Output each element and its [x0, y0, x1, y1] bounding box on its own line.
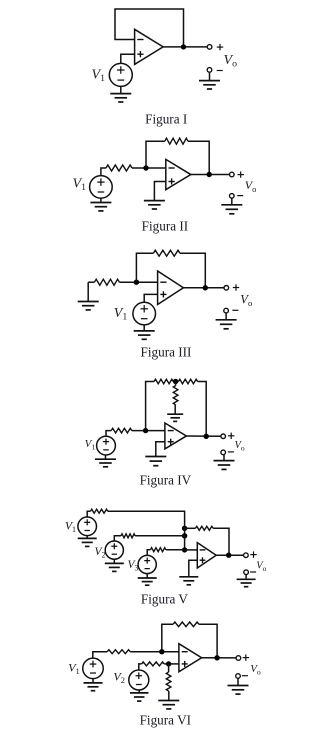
ground at output Fig.IV	[214, 455, 235, 470]
junction output node Fig.II	[207, 172, 212, 177]
svg-text:Vo: Vo	[250, 663, 261, 677]
wire bus B-C Fig.V	[184, 536, 186, 550]
terminal + Fig.II	[230, 172, 235, 177]
ground at output Fig.III	[216, 313, 237, 329]
svg-text:V1: V1	[68, 660, 80, 676]
svg-text:V2: V2	[113, 669, 125, 685]
svg-text:Vo: Vo	[224, 53, 238, 70]
wire T mid Fig.IV	[173, 381, 178, 383]
svg-text:V2: V2	[95, 546, 106, 560]
ground at output Fig.I	[199, 72, 220, 89]
wire bus A-B Fig.V	[184, 528, 186, 536]
wire R3 to bus Fig.V	[166, 549, 185, 551]
wire R1 to bus Fig.V	[108, 511, 185, 528]
svg-text:Figura II: Figura II	[142, 219, 189, 234]
wire noninverting input Fig.III	[144, 294, 157, 302]
ground under R4 Fig.IV	[167, 405, 183, 422]
op-amp U1 Fig.II	[166, 159, 191, 189]
svg-text:Vo: Vo	[235, 440, 245, 453]
wire node C to op-amp Fig.V	[185, 549, 198, 551]
wire T to R4 Fig.IV	[175, 382, 177, 386]
svg-text:V1: V1	[114, 306, 128, 323]
wire from V1 Fig.II	[101, 168, 106, 176]
wire output Fig.II	[191, 174, 230, 176]
wire output Fig.III	[183, 287, 224, 289]
terminal + Fig.I	[207, 45, 212, 50]
wire output Fig.VI	[202, 657, 237, 659]
junction inverting node Fig.VI	[159, 649, 164, 654]
junction bus node B Fig.V	[182, 533, 187, 538]
label - Fig.II	[237, 195, 243, 197]
wire R1 to node Fig.II	[132, 167, 166, 169]
ground under R4 Fig.VI	[158, 691, 179, 709]
ground under V1 Fig.IV	[95, 455, 116, 467]
ground at noninverting input Fig.IV	[145, 457, 166, 466]
wire output Fig.IV	[186, 435, 221, 437]
ground under V2 Fig.VI	[130, 690, 149, 701]
terminal - Fig.V	[244, 570, 249, 575]
label - Fig.VI	[242, 675, 248, 677]
ground at output Fig.VI	[228, 678, 249, 694]
junction output node Fig.III	[203, 285, 208, 290]
resistor R4 feedback Fig.V	[196, 526, 214, 530]
junction noninverting node Fig.VI	[166, 661, 171, 666]
resistor R4 shunt Fig.VI	[166, 672, 171, 691]
svg-text:V1: V1	[85, 438, 96, 452]
terminal + Fig.VI	[236, 656, 241, 661]
wire feedback down Fig.V	[213, 528, 229, 555]
wire noninverting to ground Fig.II	[154, 182, 165, 201]
ground at output Fig.V	[237, 575, 256, 587]
terminal + Fig.V	[244, 553, 249, 558]
source V1 Fig.V	[78, 517, 97, 536]
terminal - Fig.II	[230, 194, 235, 199]
wire R1 to node Fig.IV	[132, 430, 165, 432]
wire output Fig.I	[163, 46, 207, 48]
wire gnd to R1 Fig.III	[88, 281, 94, 283]
terminal - Fig.III	[224, 308, 229, 313]
label + Fig.III	[233, 284, 239, 290]
resistor R2 feedback Fig.III	[153, 250, 180, 256]
wire feedback up Fig.VI	[162, 624, 173, 651]
terminal - Fig.VI	[236, 674, 241, 679]
label - Fig.I	[217, 70, 223, 72]
svg-text:Figura V: Figura V	[141, 591, 188, 606]
svg-text:Figura III: Figura III	[141, 344, 192, 359]
wire feedback up Fig.II	[146, 141, 165, 168]
wire from V1 Fig.VI	[93, 652, 107, 659]
terminal - Fig.I	[207, 68, 212, 73]
junction inverting node Fig.II	[143, 165, 148, 170]
junction output node Fig.IV	[204, 434, 209, 439]
junction inverting node Fig.IV	[143, 428, 148, 433]
ground under V1 Fig.II	[90, 198, 111, 211]
svg-text:Vo: Vo	[240, 292, 253, 308]
resistor R2 feedback Fig.VI	[173, 622, 199, 627]
source V1 Fig.III	[133, 302, 156, 325]
svg-text:Figura I: Figura I	[145, 112, 187, 127]
resistor R1 Fig.IV	[111, 428, 132, 433]
junction output node Fig.V	[226, 553, 231, 558]
terminal - Fig.IV	[221, 450, 226, 455]
op-amp U1 Fig.VI	[179, 644, 202, 672]
wire from V2 Fig.V	[114, 536, 121, 541]
source V1 Fig.II	[90, 176, 113, 199]
source V2 Fig.V	[105, 541, 123, 559]
ground at output Fig.II	[221, 198, 242, 214]
wire R1 to node Fig.VI	[130, 651, 179, 653]
wire from V1 Fig.V	[87, 511, 90, 517]
wire feedback up Fig.III	[136, 253, 153, 282]
source V1 Fig.VI	[83, 658, 104, 679]
wire feedback down Fig.III	[180, 253, 205, 288]
label - Fig.IV	[228, 451, 234, 453]
wire from V2 Fig.VI	[139, 664, 142, 670]
svg-text:Vo: Vo	[245, 178, 257, 194]
wire R2 to bus Fig.V	[135, 535, 185, 537]
source V3 Fig.V	[138, 555, 156, 573]
svg-text:V1: V1	[65, 520, 76, 534]
wire from V1 Fig.IV	[106, 431, 111, 437]
resistor R4 shunt Fig.IV	[173, 386, 178, 405]
ground under V1 Fig.III	[134, 325, 155, 339]
ground at noninverting input Fig.II	[144, 201, 165, 209]
wire plus node to R4 Fig.VI	[168, 664, 170, 672]
wire feedback down Fig.II	[188, 141, 209, 174]
junction bus node A Fig.V	[182, 526, 187, 531]
resistor R2 feedback Fig.II	[165, 138, 188, 144]
label - Fig.III	[232, 309, 238, 311]
junction inverting node Fig.III	[134, 280, 139, 285]
resistor R2 feedback-left Fig.IV	[154, 379, 173, 384]
wire noninverting input Fig.I	[121, 54, 135, 63]
wire feedback loop Fig.I	[115, 9, 184, 47]
svg-text:V1: V1	[92, 67, 106, 84]
label + Fig.I	[217, 44, 223, 50]
svg-text:V1: V1	[73, 176, 87, 193]
ground at R1 input Fig.III	[78, 282, 99, 310]
resistor R1 Fig.II	[106, 165, 132, 171]
resistor R1 Fig.V	[91, 509, 108, 513]
junction T node Fig.IV	[173, 379, 178, 384]
wire feedback down Fig.IV	[198, 382, 207, 437]
terminal + Fig.IV	[221, 434, 226, 439]
wire feedback up Fig.IV	[146, 382, 155, 431]
resistor R3 Fig.V	[151, 548, 166, 552]
label + Fig.V	[250, 551, 256, 557]
junction bus node C Fig.V	[182, 547, 187, 552]
label - Fig.V	[250, 571, 256, 573]
source V2 Fig.VI	[129, 670, 149, 690]
resistor R3 Fig.VI	[142, 662, 165, 666]
op-amp U1 Fig.III	[158, 271, 184, 305]
ground at noninverting input Fig.V	[179, 577, 198, 585]
junction output node Fig.VI	[214, 655, 219, 660]
resistor R2 Fig.V	[121, 534, 135, 538]
wire noninverting to ground Fig.IV	[156, 442, 165, 457]
resistor R3 feedback-right Fig.IV	[178, 379, 197, 384]
op-amp U1 Fig.V	[197, 543, 216, 568]
junction output node Fig.I	[181, 44, 186, 49]
label + Fig.IV	[228, 433, 234, 439]
resistor R1 Fig.VI	[107, 650, 130, 654]
svg-text:Figura VI: Figura VI	[140, 712, 191, 727]
wire R3 to plus node Fig.VI	[164, 663, 179, 665]
label + Fig.VI	[243, 654, 249, 660]
terminal + Fig.III	[224, 286, 229, 291]
wire feedback Fig.V	[185, 527, 196, 529]
ground under V3 Fig.V	[138, 574, 157, 586]
ground under V1 Fig.I	[110, 86, 131, 102]
resistor R1 Fig.III	[94, 279, 119, 285]
svg-text:Vo: Vo	[256, 560, 266, 573]
ground under V1 Fig.VI	[84, 679, 103, 691]
source V1 Fig.IV	[97, 436, 116, 455]
wire R1 to node Fig.III	[119, 281, 157, 283]
ground under V2 Fig.V	[105, 559, 124, 571]
wire feedback down Fig.VI	[199, 624, 217, 657]
wire noninverting to ground Fig.V	[189, 560, 198, 577]
wire output Fig.V	[216, 554, 244, 556]
op-amp U1 Fig.I	[135, 29, 164, 64]
op-amp U1 Fig.IV	[165, 423, 187, 449]
wire from V3 Fig.V	[147, 550, 150, 556]
svg-text:Figura IV: Figura IV	[140, 473, 192, 488]
ground under V1 Fig.V	[78, 536, 97, 547]
label + Fig.II	[238, 171, 244, 177]
source V1 Fig.I	[109, 63, 132, 86]
svg-text:V3: V3	[128, 559, 139, 573]
